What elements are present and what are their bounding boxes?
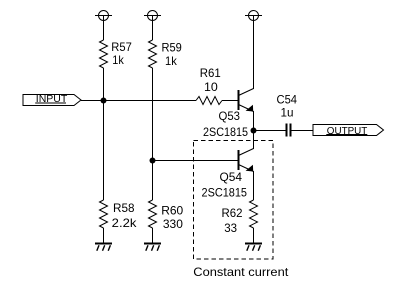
wire R60 to ground: [152, 228, 154, 244]
svg-text:R62: R62: [222, 206, 243, 220]
svg-text:R59: R59: [162, 41, 183, 55]
svg-text:R60: R60: [161, 203, 183, 217]
resistor R61: [196, 97, 222, 105]
wire R57 to R58: [103, 68, 105, 200]
node input junction: [101, 98, 107, 104]
wire C54 to OUTPUT: [291, 130, 313, 132]
node emitter junction: [251, 128, 257, 134]
ground (middle): [144, 244, 161, 251]
svg-text:R58: R58: [113, 201, 135, 215]
svg-text:2SC1815: 2SC1815: [202, 186, 248, 200]
wire R62 to ground: [253, 228, 255, 244]
wire power to R59: [152, 20, 154, 40]
svg-text:1k: 1k: [112, 53, 124, 67]
port INPUT: [23, 94, 81, 106]
svg-text:C54: C54: [277, 92, 298, 106]
wire INPUT to R61: [81, 100, 196, 102]
ground (left): [95, 244, 112, 251]
capacitor C54: [287, 124, 291, 137]
svg-text:Constant current: Constant current: [193, 265, 289, 279]
wire power to Q53 collector: [253, 20, 255, 89]
resistor R60: [149, 200, 157, 228]
svg-text:33: 33: [224, 221, 237, 235]
constant current dashed box: [194, 141, 274, 260]
svg-text:10: 10: [204, 80, 218, 94]
transistor Q54: [239, 149, 254, 172]
wire Q54 emitter to R62: [253, 171, 255, 200]
wire node to Q54 base: [153, 160, 239, 162]
svg-text:R57: R57: [111, 40, 132, 54]
wire Q53 emitter to node: [253, 111, 255, 131]
svg-text:OUTPUT: OUTPUT: [327, 126, 368, 137]
port OUTPUT: [313, 125, 384, 138]
svg-text:1u: 1u: [281, 106, 294, 120]
resistor R59: [149, 40, 157, 68]
svg-text:1k: 1k: [165, 54, 178, 68]
node Q54 base junction: [150, 158, 156, 164]
resistor R58: [100, 200, 108, 228]
ground (right): [245, 244, 262, 251]
svg-text:330: 330: [163, 217, 183, 231]
svg-text:R61: R61: [200, 66, 221, 80]
transistor Q53: [239, 89, 254, 112]
resistor R57: [100, 40, 108, 68]
wire power to R57: [103, 20, 105, 40]
resistor R62: [250, 200, 258, 228]
wire node to C54: [254, 130, 287, 132]
power symbol (right column): [245, 11, 262, 22]
svg-text:2.2k: 2.2k: [112, 216, 138, 230]
power symbol (second column): [144, 11, 161, 22]
power symbol (left column): [95, 11, 112, 22]
wire R59 to R60: [152, 68, 154, 200]
svg-text:Q53: Q53: [219, 109, 241, 123]
wire R61 to Q53 base: [222, 100, 238, 102]
svg-text:2SC1815: 2SC1815: [203, 125, 248, 139]
wire R58 to ground: [103, 228, 105, 244]
svg-text:Q54: Q54: [220, 170, 243, 184]
wire Q54 collector to node: [253, 131, 255, 149]
